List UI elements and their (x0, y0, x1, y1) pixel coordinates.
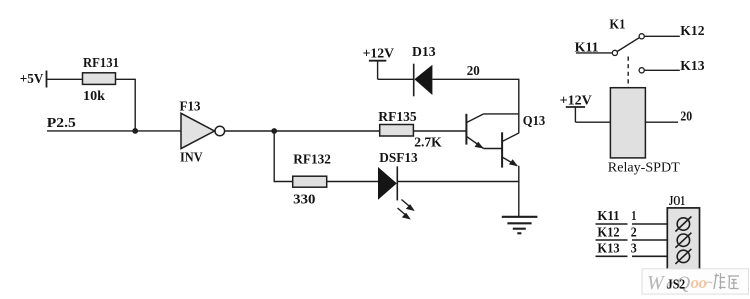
svg-text:P2.5: P2.5 (47, 116, 76, 131)
svg-text:20: 20 (467, 64, 480, 79)
wire (47, 78, 83, 80)
svg-text:K12: K12 (597, 225, 619, 240)
svg-text:20: 20 (680, 109, 692, 124)
svg-text:K11: K11 (597, 209, 619, 224)
wire / net 20 (432, 64, 518, 133)
LED DSF13 (378, 151, 418, 220)
svg-text:Relay-SPDT: Relay-SPDT (608, 161, 680, 176)
wire (327, 181, 378, 183)
svg-text:JO1: JO1 (669, 194, 685, 209)
terminal pin 3 (675, 249, 691, 264)
diode D13 (412, 45, 436, 96)
svg-text:10k: 10k (83, 89, 105, 104)
svg-text:K13: K13 (680, 59, 704, 74)
svg-text:330: 330 (293, 192, 315, 207)
watermark 维库 glyphs (714, 273, 739, 289)
svg-text:RF135: RF135 (378, 110, 416, 125)
resistor RF131 (83, 56, 120, 104)
transistor Q13 (466, 114, 545, 168)
svg-text:oo: oo (691, 273, 708, 292)
net K11 / pin 1 (596, 209, 668, 224)
svg-text:D13: D13 (412, 45, 436, 60)
net K13 / pin 3 (596, 242, 668, 257)
relay coil Relay-SPDT (608, 88, 680, 176)
node P2.5 (47, 116, 181, 131)
connector JO1 (667, 194, 699, 273)
svg-text:K12: K12 (680, 24, 704, 39)
net K12 / pin 2 (596, 225, 668, 240)
svg-text:3: 3 (631, 242, 637, 257)
wire (575, 121, 610, 123)
inverter F13 (180, 100, 225, 166)
resistor RF132 (293, 153, 331, 208)
svg-text:+12V: +12V (363, 46, 394, 61)
terminal pin 2 (675, 233, 691, 248)
svg-text:1: 1 (631, 209, 636, 224)
svg-text:Q13: Q13 (523, 114, 545, 129)
node +12V (560, 93, 592, 122)
resistor RF135 (378, 110, 442, 150)
wire (378, 78, 414, 80)
watermark (642, 269, 749, 294)
svg-text:K13: K13 (597, 242, 619, 257)
wire / net 20 (645, 109, 692, 124)
terminal pin 1 (675, 217, 691, 232)
svg-text:INV: INV (180, 151, 203, 166)
svg-text:2: 2 (631, 225, 637, 240)
node +12V (363, 46, 394, 79)
wire (518, 166, 520, 217)
relay switch K1 (575, 18, 705, 88)
svg-text:F13: F13 (180, 100, 201, 115)
svg-text:2.7K: 2.7K (414, 135, 442, 150)
node +5V (20, 71, 47, 88)
label JS2 (667, 278, 685, 293)
svg-text:RF132: RF132 (293, 153, 331, 168)
ground (502, 217, 538, 234)
svg-text:W: W (647, 272, 666, 294)
wire (397, 181, 519, 183)
svg-text:K1: K1 (609, 18, 625, 33)
junction (132, 128, 138, 134)
wire (274, 131, 293, 182)
svg-text:DSF13: DSF13 (379, 151, 417, 166)
svg-text:RF131: RF131 (83, 56, 119, 71)
wire (413, 130, 466, 132)
wire (116, 79, 136, 131)
svg-text:+5V: +5V (20, 72, 44, 87)
wire (225, 130, 380, 132)
svg-text:JS2: JS2 (667, 278, 685, 293)
junction (271, 128, 277, 134)
